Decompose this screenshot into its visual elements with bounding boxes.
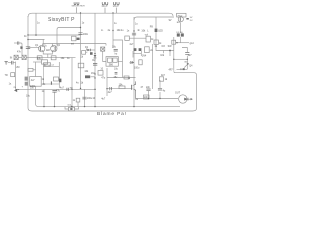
svg-text:OUT: OUT [175, 92, 181, 95]
svg-text:10k: 10k [160, 54, 165, 57]
svg-text:4u7: 4u7 [31, 80, 36, 82]
diode pair D x134 [134, 48, 137, 51]
wire x72 to bus [71, 58, 73, 107]
svg-text:9VDC: 9VDC [113, 6, 119, 8]
wire Q1 base feed [28, 47, 39, 49]
svg-text:D2: D2 [92, 59, 96, 62]
wire x122.5 down [122, 62, 124, 78]
diode D7 [183, 68, 185, 70]
svg-text:4u7: 4u7 [188, 54, 193, 57]
output jack J2 [179, 95, 187, 103]
svg-text:BD: BD [185, 62, 188, 64]
svg-text:D3: D3 [162, 45, 166, 48]
svg-text:IN: IN [10, 56, 13, 59]
junction node dots [80, 12, 81, 13]
svg-text:1n.: 1n. [9, 83, 13, 85]
svg-text:1n: 1n [73, 100, 76, 102]
capacitor x148 [146, 89, 150, 91]
capacitor x160 [158, 88, 162, 90]
svg-text:1M: 1M [91, 72, 94, 75]
wire diode pair [133, 51, 141, 54]
svg-text:10: 10 [100, 67, 103, 70]
box cluster right mid [159, 77, 163, 81]
svg-text:22n: 22n [146, 86, 151, 89]
svg-text:386: 386 [109, 62, 114, 66]
svg-text:9V: 9V [169, 19, 172, 22]
wire y43.5 [43, 44, 107, 46]
capacitor x84 [82, 97, 86, 99]
comp box dark x87 [85, 75, 90, 78]
resistor box TR [11, 73, 15, 77]
wire x15.5 [15, 62, 17, 90]
resistor R horizontal left [28, 68, 33, 71]
wire x84.5 to bus [84, 89, 86, 106]
wire y62 left [33, 61, 42, 63]
svg-text:R9: R9 [150, 25, 154, 28]
svg-text:2k: 2k [155, 45, 158, 48]
wire y77.5 [107, 77, 136, 79]
svg-text:1k: 1k [81, 82, 84, 85]
resistor box under Q2 [51, 56, 56, 60]
svg-text:10k: 10k [141, 29, 146, 32]
wire V+ top rail [28, 13, 173, 17]
pot VR1 marks [70, 108, 72, 110]
svg-text:78L0: 78L0 [177, 15, 183, 17]
svg-text:4u: 4u [76, 82, 79, 85]
svg-text:1u: 1u [114, 22, 117, 25]
svg-text:BD4: BD4 [177, 22, 182, 24]
wire x44.5 mid [44, 64, 46, 66]
svg-text:4k7: 4k7 [161, 74, 166, 77]
svg-text:1u: 1u [37, 21, 40, 24]
ground symbol left [5, 62, 8, 65]
wire IC right pin [118, 61, 122, 63]
U2 arrow mark [186, 18, 188, 20]
capacitor x134 top [132, 33, 136, 35]
resistor box left mid2 [43, 63, 50, 67]
diode D at x95 down [94, 55, 97, 58]
diode cluster top right [177, 33, 180, 36]
wire x78 stub [77, 102, 79, 107]
svg-text:L: L [147, 30, 149, 32]
wire y57.6 emitter bus [26, 57, 75, 59]
svg-text:4u7: 4u7 [101, 97, 106, 100]
wire left rail / ground bottom / right loop [28, 16, 197, 111]
capacitor x186 [185, 53, 189, 55]
transistor Q5 body [178, 17, 183, 22]
wire x134 [133, 17, 135, 107]
wire ground bus [36, 62, 181, 107]
svg-text:10k: 10k [37, 57, 42, 60]
blob under input cap [20, 46, 22, 49]
box x173 [172, 40, 176, 44]
svg-text:TR: TR [5, 75, 8, 77]
capacitor x115 under IC [115, 73, 118, 74]
svg-text:1k: 1k [42, 79, 45, 81]
wire y42.7 right [176, 42, 189, 44]
transistor Q3 bar [130, 85, 133, 90]
svg-text:D1: D1 [85, 46, 89, 49]
svg-text:1n: 1n [127, 29, 130, 32]
svg-text:1k: 1k [44, 45, 47, 48]
capacitor x113 mid [114, 49, 118, 51]
svg-text:DC: DC [190, 20, 194, 22]
svg-text:47n: 47n [17, 50, 22, 53]
pot VR1 box [69, 107, 75, 111]
wire Q2 collector [51, 44, 53, 46]
svg-text:BC54: BC54 [45, 65, 51, 67]
wire comp to x95 [91, 76, 95, 78]
svg-text:4u7: 4u7 [108, 91, 113, 94]
capacitor series y89 [67, 88, 68, 91]
svg-text:1n: 1n [42, 90, 45, 93]
svg-text:Blame Pa!: Blame Pa! [97, 111, 126, 117]
transistor Q1 bar [39, 46, 42, 50]
capacitor x54 [52, 90, 56, 92]
transistor Q2 [51, 45, 57, 51]
connector X-box J3 [101, 47, 105, 51]
svg-text:10u: 10u [114, 67, 119, 70]
svg-text:47u: 47u [56, 90, 61, 93]
svg-text:22n: 22n [144, 96, 149, 99]
svg-text:D5 D6: D5 D6 [176, 32, 183, 34]
capacitor on left rail [26, 47, 30, 49]
wire pot loop right [75, 107, 79, 109]
capacitor C in top left [18, 42, 19, 45]
svg-text:1N4: 1N4 [142, 55, 147, 58]
svg-text:SW: SW [168, 45, 173, 48]
capacitor x80 [78, 33, 82, 35]
input connector J1 arrow [14, 89, 17, 92]
box x139 mid [139, 60, 142, 65]
svg-text:4u7: 4u7 [129, 43, 134, 46]
svg-text:47u: 47u [101, 76, 106, 79]
svg-text:gnd: gnd [190, 42, 195, 45]
svg-text:.: . [175, 69, 176, 71]
op-amp U1 box [106, 57, 118, 67]
wire y39.5 [28, 39, 45, 41]
wire rail B [134, 17, 174, 20]
wire y38.2 [129, 37, 146, 39]
capacitor x110 [110, 87, 112, 90]
transistor Q1 [39, 45, 45, 51]
dark text block left lower [59, 79, 61, 83]
wire input cap stub [14, 42, 17, 44]
wire x44 to bus [43, 89, 45, 106]
box x80 mid [78, 63, 84, 68]
wire diode feed [86, 49, 88, 52]
svg-text:m.: m. [101, 30, 104, 32]
wire Xbox J3 drop [103, 44, 106, 62]
wire X-box link [18, 56, 22, 58]
wire x180.5 top right [180, 23, 182, 33]
connector X-box J1a [14, 55, 18, 59]
box pot x95 [98, 71, 103, 76]
svg-text:2u: 2u [121, 30, 124, 32]
svg-text:100k: 100k [30, 85, 36, 88]
wire x36 drop [35, 13, 37, 36]
svg-text:Q1: Q1 [35, 44, 39, 47]
wire y35 [28, 34, 81, 36]
svg-text:47: 47 [141, 87, 144, 89]
svg-text:SissyBIT P: SissyBIT P [48, 17, 75, 23]
LED x156 [155, 29, 158, 32]
wire y98.5 right [136, 98, 179, 100]
svg-text:100n: 100n [83, 33, 89, 36]
svg-text:1u: 1u [82, 22, 85, 25]
transistor Q3 wires [134, 81, 137, 84]
svg-text:set: set [71, 43, 74, 46]
svg-text:4u: 4u [108, 29, 111, 32]
svg-text:+: + [22, 86, 24, 89]
svg-text:LED: LED [158, 30, 163, 33]
battery symbol B1 [102, 2, 104, 5]
svg-text:4u: 4u [163, 90, 166, 93]
wire diode row [177, 65, 188, 70]
wire x113 [113, 13, 123, 62]
wire Q emitters [43, 51, 52, 54]
box x148 [145, 47, 150, 53]
box big mid [44, 66, 60, 84]
wire x107 [106, 68, 108, 96]
battery symbol B2 [114, 2, 116, 5]
wire x54 to bus [54, 92, 56, 106]
box big left lower [30, 77, 42, 87]
box small left lower [54, 77, 59, 81]
wire x80.5 [80, 13, 82, 89]
wire x160 to y98.5 [159, 80, 161, 88]
capacitor x131 [131, 61, 134, 64]
wire x57 drop [57, 28, 81, 46]
battery symbol B3 [74, 2, 76, 5]
resistor box under Q1 [37, 56, 42, 60]
box x83 diode bias [82, 51, 86, 55]
wire x173.8 [173, 37, 175, 71]
svg-text:4R7: 4R7 [169, 69, 174, 71]
svg-text:1k: 1k [165, 78, 168, 81]
box left of x134 [125, 36, 130, 40]
svg-text:1k8: 1k8 [46, 49, 51, 52]
svg-text:vol: vol [145, 33, 149, 36]
wire x59.3 [58, 62, 60, 88]
svg-text:9v: 9v [24, 35, 27, 38]
resistor box x156 [154, 40, 158, 44]
box x78 above bus [76, 98, 80, 102]
svg-text:Q4: Q4 [189, 66, 193, 68]
connector X-box J1b [22, 55, 26, 59]
U2 power block top right [177, 13, 186, 17]
wire x152.5 [152, 44, 154, 89]
wire cap-gnd to node [8, 62, 16, 64]
wire Q1 collector [42, 40, 44, 46]
wire y47.5 stub right [182, 48, 187, 53]
svg-text:hu: hu [115, 53, 118, 56]
wire x163.5 stub [163, 51, 165, 54]
box 22n right [144, 95, 150, 99]
resistor box left mid [42, 60, 48, 64]
wire Q4 arrow line [184, 64, 188, 68]
svg-text:2M: 2M [16, 67, 19, 69]
svg-text:4n: 4n [137, 30, 140, 32]
svg-text:1u: 1u [135, 22, 138, 25]
wire x187.3 down [186, 56, 188, 59]
jack J2 arrow [184, 98, 187, 101]
svg-text:10u: 10u [26, 95, 31, 98]
svg-text:2u: 2u [150, 50, 153, 52]
dark comps on left rail [25, 77, 28, 81]
svg-text:10u: 10u [112, 45, 117, 48]
svg-text:GIRLIES HUH: GIRLIES HUH [72, 6, 85, 8]
box right of x134 [146, 36, 150, 42]
box resistor y77.5 [124, 76, 129, 79]
wire x170 stub [169, 51, 171, 57]
transistor Q4 arrowhead [187, 63, 189, 65]
capacitor gnd left [12, 61, 13, 65]
wire Q4 stub [186, 59, 188, 64]
diode D at x88 [87, 49, 90, 52]
svg-text:10k: 10k [84, 70, 89, 73]
wire y69.8 left [28, 69, 36, 71]
wire pot loop left [65, 107, 69, 109]
svg-text:Q2: Q2 [57, 44, 61, 47]
wire jack out [188, 98, 191, 100]
wire y59.3 [174, 58, 188, 60]
box resistor y88.7 [119, 86, 125, 89]
svg-text:100u: 100u [134, 66, 140, 69]
wire x148 to y98.5 [148, 91, 150, 99]
svg-text:10k: 10k [42, 84, 47, 86]
transistor Q2 bar [54, 46, 57, 50]
capacitor x95 mid [93, 63, 97, 65]
svg-text:1k: 1k [81, 57, 84, 59]
wire x156 [156, 17, 174, 51]
wire y89.3 input bus [16, 88, 97, 90]
wire y88.7 mid [107, 88, 132, 90]
wire x95 [94, 13, 96, 107]
svg-text:.: . [131, 49, 132, 52]
